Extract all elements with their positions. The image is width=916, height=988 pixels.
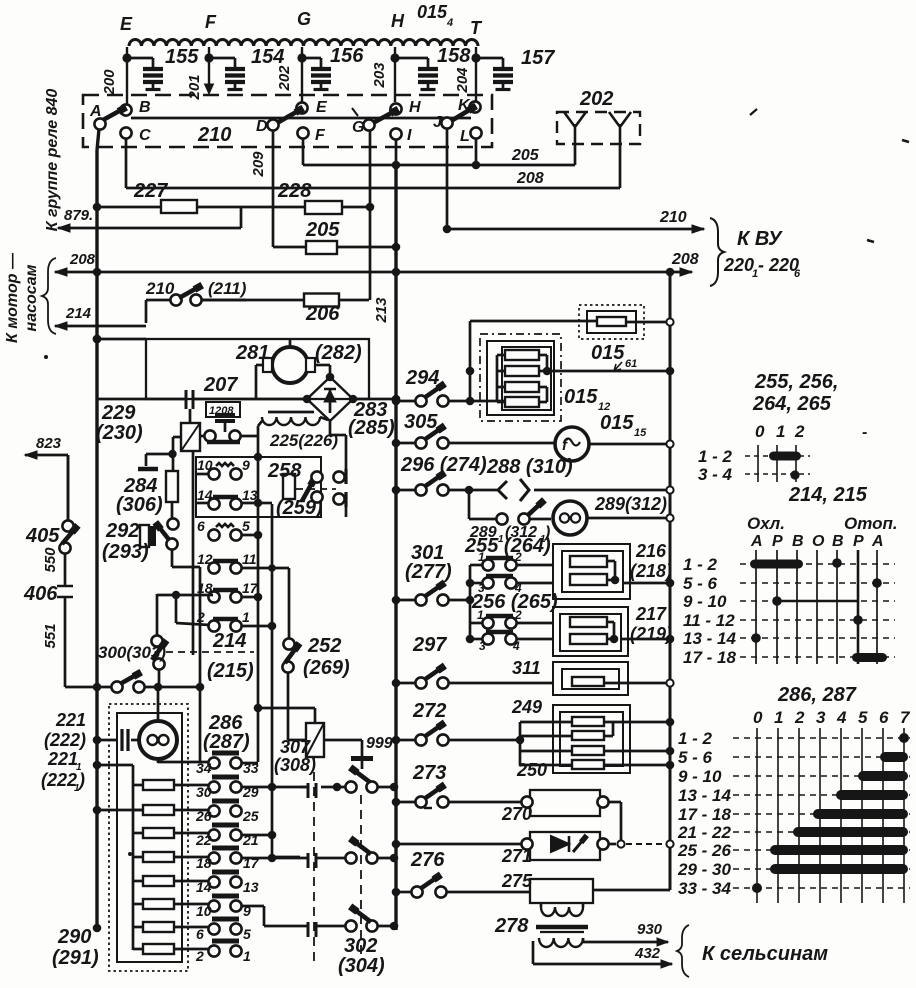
svg-text:L: L (460, 128, 470, 145)
wire 405-406 (64, 553, 67, 583)
table 255 grid (757, 445, 759, 482)
wire 207 row (97, 398, 186, 401)
svg-text:252: 252 (307, 635, 341, 657)
svg-text:К мотор —: К мотор — (4, 252, 21, 343)
svg-text:10: 10 (196, 903, 212, 919)
switch 210(211) (146, 299, 171, 302)
svg-text:(282): (282) (315, 342, 362, 364)
svg-text:E: E (120, 14, 133, 34)
dashed link 300 (166, 651, 254, 653)
contact pair 34/33 with resistor (212, 751, 239, 756)
wire tap 202 (301, 47, 303, 106)
dotted box 290(291) (109, 704, 188, 971)
table 286 bar row7 (770, 845, 908, 855)
svg-text:214, 215: 214, 215 (788, 484, 868, 506)
svg-text:1: 1 (477, 608, 484, 622)
contact I (390, 128, 401, 139)
svg-text:(277): (277) (405, 561, 452, 583)
svg-text:3 - 4: 3 - 4 (698, 465, 733, 484)
svg-text:999: 999 (366, 735, 393, 752)
switch 272 (396, 739, 415, 742)
wire 221-1 row (97, 764, 133, 767)
wire antenna Y1 drop (574, 144, 577, 165)
wire 708 to relay (258, 707, 315, 710)
svg-text:- 220: - 220 (758, 255, 799, 275)
wire L down (475, 138, 478, 165)
wire corner 214 (145, 300, 148, 323)
svg-text:(230): (230) (96, 422, 143, 444)
wire corner 879 (240, 207, 243, 228)
block 271 diode (530, 832, 600, 860)
svg-text:H: H (409, 99, 421, 116)
svg-text:А: А (750, 533, 763, 550)
svg-text:6: 6 (197, 518, 205, 534)
svg-text:(211): (211) (208, 279, 247, 298)
wire 271 out (608, 843, 616, 846)
wire tap 204 (475, 47, 477, 105)
svg-text:О: О (812, 533, 825, 550)
svg-text:213: 213 (373, 297, 390, 324)
svg-text:(306): (306) (116, 494, 163, 516)
svg-text:9 - 10: 9 - 10 (678, 767, 722, 786)
block 216(218) (553, 544, 630, 599)
svg-text:217: 217 (635, 604, 667, 624)
contact E (296, 102, 307, 113)
svg-text:): ) (77, 770, 85, 790)
buzzer 292(293) (140, 525, 149, 547)
table 214 grid (755, 550, 757, 664)
switch 276 (411, 886, 422, 897)
svg-text:202: 202 (276, 65, 293, 92)
contact pair 2/1 (213, 617, 238, 622)
resistor 015_12 row y371 (505, 366, 539, 376)
svg-text:F: F (205, 12, 217, 32)
capacitor 154 (209, 57, 235, 60)
wire 208 upper (126, 187, 620, 190)
contact pair 30/29 with resistor (212, 775, 239, 780)
switch 294 (396, 400, 415, 403)
svg-text:157: 157 (521, 47, 555, 69)
wire 205 (303, 164, 575, 167)
svg-text:25 - 26: 25 - 26 (677, 841, 731, 860)
wire 258 down (345, 507, 348, 517)
table 286 dot row1 (899, 733, 909, 743)
svg-text:154: 154 (251, 46, 284, 68)
bus node y802 (392, 798, 401, 807)
wire 930 (582, 938, 585, 942)
contact pair 22/21 with resistor (212, 823, 239, 828)
svg-text:1: 1 (776, 422, 785, 441)
wire y595 (157, 594, 213, 597)
box contact group (196, 457, 321, 517)
block 275 (530, 879, 593, 903)
svg-text:206: 206 (305, 303, 340, 325)
svg-text:В: В (792, 533, 804, 550)
svg-text:205: 205 (511, 147, 540, 164)
scan mark (44, 355, 48, 359)
switch 273 (396, 801, 415, 804)
contact D (267, 119, 278, 130)
svg-text:11: 11 (242, 551, 257, 567)
svg-text:(293): (293) (102, 541, 149, 563)
wire 879 arrow (58, 227, 241, 230)
svg-text:3: 3 (816, 708, 826, 727)
svg-text:276: 276 (410, 849, 445, 871)
signal lamp 221 (infinity) (139, 721, 177, 759)
svg-text:(291): (291) (52, 947, 99, 969)
wire tap 200 (126, 47, 128, 110)
connector gap row1 (308, 783, 316, 798)
svg-text:В: В (832, 533, 844, 550)
svg-text:220: 220 (723, 255, 754, 275)
wire 276 left (396, 891, 411, 894)
svg-text:5: 5 (243, 926, 251, 942)
svg-text:5: 5 (858, 708, 868, 727)
svg-text:5 - 6: 5 - 6 (678, 748, 713, 767)
wires 015_12 right (539, 354, 547, 357)
svg-text:300(303): 300(303) (98, 643, 166, 662)
block 270 (530, 790, 600, 816)
wire 33 up (242, 762, 258, 765)
wire G down (369, 130, 372, 300)
vertical wire x193 (192, 451, 195, 655)
motor 281(282) (272, 347, 308, 383)
svg-text:(222): (222) (44, 730, 86, 750)
generator 289(312) infinity (553, 501, 587, 535)
resistor 284(306) (166, 471, 178, 502)
wires 255 (470, 564, 483, 567)
svg-text:204: 204 (454, 67, 471, 94)
svg-text:0: 0 (755, 422, 765, 441)
relay 307(308) (306, 723, 324, 757)
scan mark (352, 108, 358, 116)
svg-text:550: 550 (42, 547, 59, 573)
table 286 bar row2 (880, 752, 908, 762)
switch 289_1(312_1) (496, 513, 507, 524)
wire 271 row (396, 843, 522, 846)
wire 015_61 feed (470, 320, 597, 323)
connector row1 (321, 786, 346, 789)
svg-text:249: 249 (511, 697, 542, 717)
svg-text:250: 250 (516, 760, 547, 780)
svg-text:551: 551 (42, 623, 59, 648)
switch blade J-K (451, 109, 471, 121)
table 214 dot 11-12 (853, 615, 863, 625)
svg-text:208: 208 (516, 170, 544, 187)
dashed box relay group 210 (83, 95, 492, 147)
switch blade 258 (302, 483, 312, 501)
capacitor 158 (395, 57, 428, 60)
resistor 205 row (273, 246, 396, 249)
svg-text:33 - 34: 33 - 34 (678, 879, 731, 898)
contact H (390, 103, 401, 114)
svg-text:288 (310): 288 (310) (486, 456, 573, 478)
svg-text:-: - (862, 424, 867, 441)
capacitor 155 (127, 57, 153, 60)
svg-text:34: 34 (196, 760, 212, 776)
resistor 227 (161, 200, 197, 213)
svg-text:258: 258 (267, 460, 302, 482)
scan mark (424, 807, 432, 809)
wire tap 203 (394, 47, 396, 102)
svg-text:201: 201 (186, 74, 203, 100)
wires 216 (607, 560, 615, 563)
brace K VU (710, 218, 724, 286)
svg-text:208: 208 (671, 251, 699, 268)
contact G (363, 119, 374, 130)
switch 296 (396, 489, 415, 492)
wire 17 right (241, 596, 258, 599)
svg-text:Р: Р (772, 533, 783, 550)
resistor 249 row y722 (572, 717, 604, 726)
wire relay right (324, 739, 362, 742)
svg-text:7: 7 (900, 708, 911, 727)
svg-text:1: 1 (478, 550, 485, 564)
contact B (120, 104, 131, 115)
wire 406 down (64, 600, 67, 687)
wire 252 up (288, 568, 291, 639)
contacts 255 (486, 556, 513, 561)
wire branch x176 (175, 595, 178, 623)
capacitor 156 (302, 57, 321, 60)
wire relay top (189, 409, 192, 423)
wires 249 left (519, 722, 522, 765)
svg-text:5 - 6: 5 - 6 (683, 574, 718, 593)
box 281(282) (146, 339, 369, 399)
svg-text:208: 208 (69, 251, 96, 268)
svg-text:214: 214 (65, 305, 92, 322)
contact pair 18/17 (213, 588, 238, 593)
dashed box 202 (557, 112, 640, 144)
table 286 bar row4 (836, 790, 908, 800)
wire 208 long (55, 271, 692, 274)
svg-text:F: F (315, 127, 326, 144)
wire 252 down (287, 672, 290, 740)
svg-text:(215): (215) (207, 660, 254, 682)
resistor 228 (305, 201, 342, 214)
wires 217 (607, 621, 614, 624)
contact pair 10/9 (216, 463, 234, 466)
transformer 278 secondary (539, 938, 583, 947)
svg-text:К ВУ: К ВУ (737, 228, 783, 250)
table 214 dot 5-6 (872, 578, 882, 588)
capacitor 999 (361, 740, 364, 756)
svg-text:405: 405 (25, 525, 60, 547)
contact L (470, 127, 481, 138)
svg-text:22: 22 (195, 832, 212, 848)
wire 823 arrow (25, 454, 68, 457)
bridge rectifier 283(285) (307, 377, 353, 421)
inductor 225(226) (268, 411, 314, 414)
node tap 200 (122, 53, 131, 62)
svg-text:29 - 30: 29 - 30 (677, 860, 731, 879)
svg-text:6: 6 (196, 926, 204, 942)
arrowhead wire 201 (205, 84, 214, 94)
svg-text:(285): (285) (348, 417, 395, 439)
bus node y600 (392, 596, 401, 605)
svg-text:221: 221 (47, 749, 78, 769)
svg-text:1 - 2: 1 - 2 (698, 447, 733, 466)
svg-text:15: 15 (634, 427, 647, 439)
inner box 290 (117, 713, 182, 962)
brace selsin (677, 925, 689, 977)
wire relay bottom (173, 436, 182, 439)
svg-text:015: 015 (600, 412, 634, 434)
svg-text:30: 30 (196, 784, 212, 800)
resistor 249 row y765 (572, 760, 604, 769)
switch 301(277) (396, 599, 415, 602)
svg-text:1 - 2: 1 - 2 (683, 555, 718, 574)
relay contacts 229 (204, 430, 215, 441)
svg-text:17 - 18: 17 - 18 (678, 805, 731, 824)
table 286 bar row5 (813, 809, 908, 819)
left bus (97, 129, 99, 150)
contact pair 12/11 (213, 559, 238, 564)
svg-text:286, 287: 286, 287 (777, 684, 857, 706)
contact pair 14/13 (213, 495, 238, 500)
main bus x396 (394, 165, 397, 930)
svg-text:12: 12 (197, 551, 213, 567)
wire contact row B-K (131, 117, 471, 120)
svg-text:(287): (287) (203, 731, 250, 753)
svg-text:13 - 14: 13 - 14 (683, 629, 736, 648)
svg-text:10: 10 (197, 457, 213, 473)
svg-text:A: A (89, 103, 102, 120)
switch blade D-E (277, 111, 298, 123)
svg-text:13: 13 (243, 879, 259, 895)
svg-text:(219): (219) (630, 624, 672, 644)
relay 229(230) (181, 423, 200, 451)
wire 015_12 out (547, 370, 670, 373)
svg-text:Охл.: Охл. (747, 514, 785, 533)
switch 300(303) (156, 594, 159, 636)
svg-text:К сельсинам: К сельсинам (702, 943, 828, 965)
resistor 206 row (201, 299, 369, 302)
wire J down (446, 128, 449, 229)
wire 9 right (242, 905, 264, 908)
svg-text:11 - 12: 11 - 12 (683, 611, 735, 630)
node tap 204 (471, 53, 480, 62)
wire f~ out (589, 443, 670, 446)
connector row3 (308, 922, 316, 937)
wire 275 out (593, 889, 670, 892)
svg-text:272: 272 (412, 700, 446, 722)
scan mark (750, 109, 757, 115)
switch 297 (396, 682, 415, 685)
svg-text:2: 2 (794, 422, 805, 441)
contact pair 26/25 with resistor (212, 799, 239, 804)
svg-text:200: 200 (101, 69, 118, 96)
svg-text:14: 14 (197, 487, 213, 503)
svg-text:насосам: насосам (23, 264, 40, 331)
switch blade row1 (355, 771, 371, 783)
svg-text:4: 4 (512, 639, 520, 653)
contact A (94, 118, 105, 129)
svg-text:6: 6 (879, 708, 889, 727)
wire F down (302, 138, 305, 165)
bus node y443 (392, 439, 401, 448)
block 311 (553, 662, 628, 695)
contacts 288 (498, 481, 507, 499)
capacitor 229 series (185, 390, 188, 409)
table 286 bar row8 (770, 864, 908, 874)
svg-text:209: 209 (250, 151, 267, 178)
svg-text:J: J (433, 114, 443, 131)
svg-text:К группе реле 840: К группе реле 840 (44, 89, 61, 232)
wire 432 (532, 941, 535, 964)
svg-text:307: 307 (280, 737, 311, 757)
bus node y844 (392, 840, 401, 849)
wire 5 right (241, 534, 258, 537)
svg-text:214: 214 (212, 630, 246, 652)
resistor 015_12 row y355 (505, 350, 539, 360)
wire motor left (256, 364, 263, 367)
svg-text:305: 305 (404, 411, 438, 433)
wire 10-14 left (197, 473, 209, 476)
node tap 203 (390, 53, 399, 62)
table 214 dot 9-10 (772, 596, 782, 606)
svg-text:156: 156 (330, 45, 364, 67)
svg-text:930: 930 (637, 921, 663, 938)
svg-text:2: 2 (514, 550, 522, 564)
svg-text:216: 216 (635, 541, 667, 561)
svg-text:225(226): 225(226) (269, 431, 338, 450)
svg-text:G: G (297, 9, 311, 29)
table 214 dot 13-14 (751, 633, 761, 643)
svg-text:255, 256,: 255, 256, (754, 371, 838, 393)
svg-text:2: 2 (794, 708, 805, 727)
svg-text:297: 297 (412, 634, 447, 656)
svg-text:205: 205 (305, 219, 340, 241)
svg-text:(218): (218) (630, 561, 672, 581)
scan mark (128, 852, 132, 856)
svg-text:H: H (391, 11, 405, 31)
svg-text:2: 2 (195, 948, 204, 964)
table 286 bar row6 (793, 827, 908, 837)
svg-text:227: 227 (133, 180, 168, 202)
svg-text:432: 432 (634, 945, 661, 962)
svg-text:155: 155 (165, 46, 199, 68)
contact J (441, 117, 452, 128)
wire 17 right (242, 857, 308, 860)
svg-text:203: 203 (371, 62, 388, 89)
svg-text:273: 273 (412, 762, 446, 784)
svg-text:5: 5 (242, 518, 250, 534)
vertical wire x272 (271, 504, 274, 857)
svg-text:823: 823 (36, 435, 62, 452)
wire lamp up (157, 688, 160, 721)
svg-text:292: 292 (105, 520, 139, 542)
svg-text:1: 1 (242, 609, 250, 625)
svg-text:13 - 14: 13 - 14 (678, 786, 731, 805)
block 217(219) (553, 607, 628, 656)
svg-text:4: 4 (446, 17, 453, 29)
capacitor 284 branch (146, 453, 172, 456)
wire bridge to bus (353, 398, 396, 401)
svg-text:290: 290 (57, 926, 91, 948)
wire antenna Y2 drop (619, 144, 622, 188)
bus node y399 (392, 395, 401, 404)
svg-text:210: 210 (145, 279, 175, 298)
svg-text:61: 61 (625, 358, 637, 370)
wire 9-13 right (241, 502, 258, 505)
dashed link 302 b (360, 795, 362, 955)
wire 292 down (171, 549, 174, 567)
svg-text:278: 278 (494, 915, 529, 937)
svg-text:(308): (308) (274, 755, 316, 775)
resistor 015_12 row y387 (505, 382, 539, 392)
wire tap 201 (208, 47, 210, 90)
